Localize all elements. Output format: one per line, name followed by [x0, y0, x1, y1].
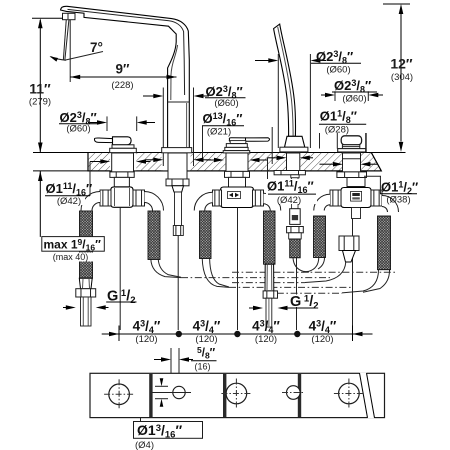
svg-text:43/4″: 43/4″: [309, 319, 337, 336]
svg-text:12″: 12″: [390, 56, 413, 72]
svg-text:(16): (16): [194, 362, 210, 372]
svg-text:(Ø60): (Ø60): [342, 94, 366, 105]
svg-text:(Ø60): (Ø60): [326, 65, 350, 76]
svg-text:(Ø42): (Ø42): [57, 196, 81, 207]
svg-text:(279): (279): [29, 97, 51, 108]
svg-text:(Ø28): (Ø28): [325, 125, 349, 136]
svg-text:(max 40): (max 40): [53, 252, 89, 262]
svg-text:43/4″: 43/4″: [133, 319, 161, 336]
svg-text:(120): (120): [311, 334, 333, 345]
svg-text:(Ø4): (Ø4): [135, 440, 154, 450]
svg-text:(120): (120): [195, 334, 217, 345]
svg-text:7°: 7°: [90, 40, 103, 55]
svg-text:(120): (120): [255, 334, 277, 345]
svg-text:(304): (304): [391, 72, 413, 83]
svg-text:Ø13/16″: Ø13/16″: [203, 111, 243, 128]
svg-text:11″: 11″: [29, 81, 51, 97]
svg-text:(Ø60): (Ø60): [66, 124, 90, 135]
svg-text:(120): (120): [135, 334, 157, 345]
svg-text:(Ø42): (Ø42): [277, 195, 301, 206]
svg-text:(Ø60): (Ø60): [214, 98, 238, 109]
svg-text:43/4″: 43/4″: [193, 319, 221, 336]
svg-text:(Ø21): (Ø21): [207, 127, 231, 138]
svg-text:(Ø38): (Ø38): [386, 195, 410, 206]
svg-text:43/4″: 43/4″: [252, 319, 280, 336]
svg-text:(228): (228): [111, 80, 133, 91]
svg-text:9″: 9″: [116, 62, 131, 77]
